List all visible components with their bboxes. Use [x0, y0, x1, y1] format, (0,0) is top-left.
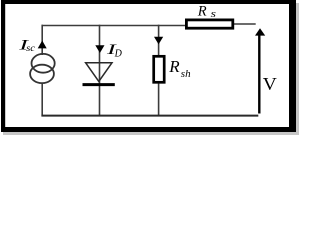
wire shunt branch lower: [158, 84, 160, 116]
label Rsh: [168, 57, 191, 80]
wire bottom rail: [41, 115, 258, 117]
resistor Rs: [186, 20, 232, 28]
svg-text:sc: sc: [26, 44, 36, 54]
wire shunt branch upper: [158, 25, 160, 56]
wire current source branch lower: [41, 83, 43, 115]
current direction arrow ID: [95, 45, 104, 53]
current source Isc: [30, 54, 55, 83]
svg-text:D: D: [114, 49, 123, 60]
svg-text:R: R: [197, 4, 207, 20]
wire top rail left: [42, 25, 187, 27]
wire current source branch upper: [41, 25, 43, 55]
svg-text:s: s: [211, 7, 217, 19]
svg-text:V: V: [263, 75, 278, 95]
svg-text:sh: sh: [181, 68, 191, 80]
resistor Rsh: [154, 56, 165, 82]
wire diode branch: [99, 25, 101, 116]
label Rs: [197, 4, 216, 20]
svg-text:R: R: [168, 57, 180, 76]
label ID: [106, 40, 123, 59]
wire top rail right: [233, 23, 256, 25]
voltage arrow V: [255, 28, 265, 113]
diode D1: [83, 63, 115, 85]
label Isc: [18, 37, 36, 54]
current direction arrow Isc: [38, 41, 47, 49]
current direction arrow Ish: [154, 37, 163, 45]
